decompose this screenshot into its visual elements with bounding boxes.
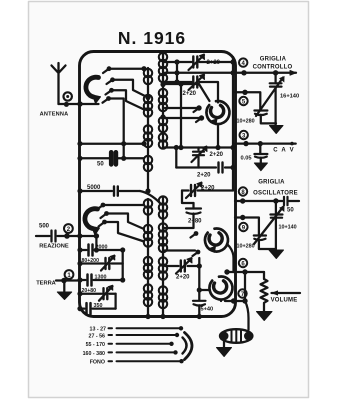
junction (77, 141, 82, 146)
terminal 1 TERRA (56, 270, 80, 283)
coil L3 column lower (primary) (144, 199, 152, 306)
svg-text:REAZIONE: REAZIONE (39, 244, 69, 250)
grid wire row (pin4) (165, 72, 296, 74)
terminal 8 circle oscillator grid (239, 187, 247, 196)
ground under dial lamp (217, 341, 232, 357)
svg-text:FONO: FONO (90, 360, 105, 366)
antenna A1 (52, 63, 66, 104)
wire link (123, 144, 125, 159)
capacitor 10+280 first (254, 111, 276, 124)
coil L2 column upper (secondary) (159, 53, 167, 149)
coil L1 column upper (primary) (144, 68, 152, 174)
ground under 16+140 (270, 126, 284, 134)
wire pin6 row (227, 271, 264, 273)
chassis box outline (80, 52, 236, 317)
variable capacitor 16+140 (270, 73, 282, 125)
switch contact S1c (106, 88, 114, 95)
wire IF row (163, 146, 233, 148)
switch contact S1b (107, 77, 115, 84)
trimmer 2+20 (T2) (163, 74, 218, 103)
capacitor 1300 (80, 275, 123, 286)
svg-text:50: 50 (97, 162, 104, 168)
junction (77, 188, 82, 193)
capacitor 5+40 (193, 301, 206, 317)
ground under volume (257, 312, 273, 321)
variable capacitor 10+140 (270, 201, 282, 250)
ground under terra (57, 281, 71, 300)
svg-text:2+20: 2+20 (201, 186, 215, 192)
svg-text:80+200: 80+200 (82, 258, 100, 264)
terminal 3 circle (240, 131, 248, 140)
wire CAV row (235, 142, 296, 144)
band legend line 160-380 (83, 350, 178, 357)
svg-text:16+140: 16+140 (280, 94, 299, 100)
switch contact S2c (99, 220, 145, 242)
volume wiper arrow (272, 292, 301, 294)
antenna terminal circle (63, 92, 71, 100)
capacitor 2+80 electrolytic (186, 203, 201, 228)
terminal 4 circle (239, 58, 247, 67)
wire vertical link T1-T2 (176, 62, 178, 82)
wire S1c (112, 90, 145, 109)
svg-text:13 - 27: 13 - 27 (90, 327, 107, 333)
svg-text:CONTROLLO: CONTROLLO (253, 65, 293, 71)
terminal 5 circle (239, 97, 247, 106)
svg-text:5+40: 5+40 (201, 307, 214, 313)
band switch rotor arc (183, 333, 193, 360)
svg-text:500: 500 (39, 224, 50, 230)
wire vertical right of caps (122, 250, 124, 280)
svg-text:160 - 380: 160 - 380 (83, 351, 105, 357)
wire L3 to bottom rail (147, 303, 149, 317)
band legend line 55-170 (86, 342, 174, 349)
svg-text:N. 1916: N. 1916 (118, 28, 186, 48)
svg-text:ANTENNA: ANTENNA (40, 112, 69, 118)
svg-text:5000: 5000 (87, 185, 101, 191)
terminal 9 circle (239, 223, 247, 232)
dial lamp oval (220, 329, 254, 343)
svg-text:C A V: C A V (273, 148, 295, 154)
capacitor 50 (C50) (80, 152, 144, 164)
ground under 10+140 (269, 250, 284, 259)
switch contact S2b (101, 211, 145, 229)
terminal 2 REAZIONE (36, 224, 96, 241)
ganged arrow (256, 78, 283, 117)
wire coil tap to tube V1 (163, 84, 210, 101)
capacitor 5000 (C5000) (80, 187, 160, 204)
wire tube V3 bottom (221, 300, 245, 302)
right inner bus (232, 57, 234, 191)
tube V1 contact b (165, 115, 204, 122)
trimmer 2+20 (T1) (163, 54, 233, 70)
junction (77, 247, 82, 252)
wire osc to output (198, 258, 200, 300)
trimmer 80+200 (80, 255, 123, 271)
svg-text:27 - 56: 27 - 56 (89, 333, 106, 339)
wire pin9 row (235, 218, 259, 235)
wire L4 to bottom rail (162, 307, 164, 317)
capacitor 350 (80, 303, 116, 314)
capacitor 10+280 second (254, 236, 276, 250)
junction (77, 261, 82, 266)
switch contact S1a (103, 66, 111, 73)
svg-text:2+20: 2+20 (207, 60, 221, 66)
coupling coil arrow (crescent) top (86, 77, 101, 103)
svg-text:1300: 1300 (95, 275, 107, 281)
junction (77, 306, 82, 311)
trimmer 2+20 (T5) oscillator (182, 182, 233, 198)
capacitor 2+20 (C4) row (176, 163, 233, 173)
tube V2 oscillator (205, 229, 228, 253)
switch contact S1d (103, 96, 111, 103)
capacitor 0.05 (254, 144, 267, 163)
terminal 7 circle (238, 289, 246, 298)
wire vertical bus left-mid (95, 236, 97, 250)
junction (77, 291, 82, 296)
svg-text:2+20: 2+20 (210, 152, 224, 158)
wire tube V1 cathode down (217, 124, 219, 148)
terminal 6 circle (239, 259, 247, 268)
trimmer 2+20 (T3) (192, 146, 208, 168)
wire pin6 to lamp feed (244, 272, 246, 301)
wire T5 down (182, 191, 194, 204)
svg-text:20+80: 20+80 (82, 288, 97, 294)
svg-text:2+80: 2+80 (188, 219, 202, 225)
tube V2 contact b (164, 250, 200, 256)
svg-text:OSCILLATORE: OSCILLATORE (253, 191, 298, 197)
wire tube V2 to edge (227, 244, 234, 272)
svg-text:GRIGLIA: GRIGLIA (260, 57, 287, 63)
svg-text:0.05: 0.05 (241, 156, 252, 162)
capacitor 2000 (80, 245, 123, 256)
coupling coil arrow (crescent) bottom (85, 209, 100, 235)
wire antenna to box (59, 103, 99, 105)
svg-text:55 - 170: 55 - 170 (86, 342, 105, 348)
wire osc grid row + capacitor 50 (235, 197, 299, 205)
tube V1 mixer (206, 101, 229, 125)
svg-text:2+20: 2+20 (183, 91, 197, 97)
band legend line 13-27 (90, 326, 184, 333)
svg-text:350: 350 (94, 303, 103, 309)
junction reazione (64, 233, 70, 239)
svg-text:2+20: 2+20 (197, 173, 211, 179)
wire tube V3 left (199, 289, 210, 291)
svg-text:10+280: 10+280 (237, 119, 255, 125)
junction antenna wire (64, 102, 69, 107)
tube V1 contact a (165, 105, 202, 112)
junction coil taps (145, 95, 150, 100)
wire L1 to 5000 (147, 174, 149, 191)
band legend line 27-56 (89, 333, 180, 340)
coil L4 column lower (secondary) (159, 196, 167, 308)
wire pin5 row (235, 92, 260, 109)
tube V3 output (209, 277, 232, 300)
switch contact S2a (97, 203, 144, 210)
wire 20+80 to 350 link (114, 294, 116, 309)
wire to dial lamp (245, 301, 249, 330)
wire S1a to coil (109, 68, 144, 70)
wire vertical osc feed (180, 84, 182, 148)
svg-text:2+20: 2+20 (176, 275, 190, 281)
svg-text:10+140: 10+140 (279, 225, 297, 231)
wire RF row 1 (80, 143, 144, 145)
wire S1d down to RF row (109, 99, 124, 144)
resistor volume pot (261, 272, 268, 311)
junction (77, 156, 82, 161)
svg-text:50: 50 (287, 208, 294, 214)
trimmer 20+80 (80, 285, 116, 301)
svg-text:10+280: 10+280 (237, 244, 255, 250)
svg-text:TERRA: TERRA (36, 281, 56, 287)
wire vertical link (175, 148, 177, 168)
ground under 0.05 (254, 163, 267, 171)
ganged arrow osc (254, 207, 283, 244)
wire S1b (113, 80, 149, 98)
arrowhead grid wire (290, 71, 296, 76)
svg-text:VOLUME: VOLUME (271, 298, 298, 304)
band legend line FONO (90, 359, 184, 366)
tube V2 contact a (164, 228, 198, 238)
svg-text:GRIGLIA: GRIGLIA (258, 179, 285, 185)
trimmer 2+20 (T6) osc padder (165, 258, 199, 274)
